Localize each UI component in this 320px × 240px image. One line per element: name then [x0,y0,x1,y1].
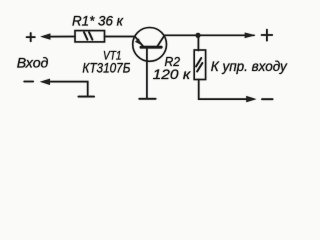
svg-text:120 к: 120 к [153,66,192,82]
terminal bar of base connection [139,98,155,100]
wire input Вход (left arrow, corner down) [40,79,88,97]
arrow head of + rail right [245,33,256,39]
plus polarity marker right [262,30,273,41]
wire R1 to VT1 emitter [105,36,136,38]
plus polarity marker left [27,33,35,41]
svg-text:КТ3107Б: КТ3107Б [82,61,130,77]
svg-text:Вход: Вход [17,55,49,71]
minus polarity marker bottom right [262,98,273,100]
wire VT1 base lead down [146,47,148,98]
node junction dot (collector / R2) [195,33,200,38]
resistor R2 (0.125W power marks) [194,50,205,80]
svg-text:К упр. входу: К упр. входу [211,58,288,74]
wire VT1 collector to right rail [165,34,255,36]
resistor R1 (0.125W power marks) [75,31,105,42]
wire + rail left (ends in left arrow) [40,33,75,39]
minus polarity marker left [24,81,33,83]
background paper [0,0,305,111]
terminal bar of input connection [79,96,95,98]
wire junction to R2 [197,35,199,50]
wire R2 to control output (right arrow) [199,80,257,103]
svg-text:R1* 36 к: R1* 36 к [72,13,124,29]
transistor VT1 (PNP, emitter arrow, base bar) [133,28,167,62]
